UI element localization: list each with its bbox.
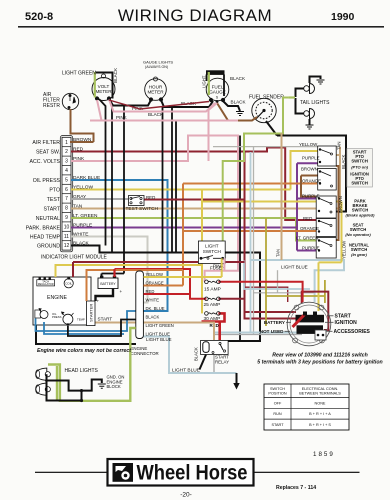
wire white pin11 to engine connector bbox=[71, 237, 148, 303]
svg-text:DK. BLUE: DK. BLUE bbox=[146, 306, 165, 311]
svg-text:6: 6 bbox=[65, 187, 68, 193]
svg-text:5 terminals with 3 key positio: 5 terminals with 3 key positions for bat… bbox=[257, 360, 382, 366]
svg-text:BATTERY: BATTERY bbox=[100, 282, 116, 286]
start relay bbox=[201, 340, 229, 354]
svg-text:(PTO on): (PTO on) bbox=[351, 165, 368, 170]
wire yellow light switch feed leg bbox=[221, 258, 223, 277]
svg-text:7: 7 bbox=[65, 196, 68, 202]
junction dots head lights bbox=[80, 389, 83, 392]
svg-text:-20-: -20- bbox=[180, 492, 192, 499]
wire color labels bbox=[73, 137, 100, 247]
hour meter bbox=[145, 77, 167, 102]
ignition label bbox=[325, 321, 334, 323]
wire engine conn lt green to head lights bbox=[48, 328, 136, 401]
svg-text:11: 11 bbox=[64, 234, 69, 240]
wire gray relay run bbox=[214, 334, 302, 336]
engine outline box bbox=[33, 277, 91, 325]
svg-text:TEMP: TEMP bbox=[77, 318, 85, 322]
svg-text:ORANGE: ORANGE bbox=[302, 178, 321, 183]
switch position table bbox=[264, 384, 349, 430]
tail lights lamp upper bbox=[304, 84, 315, 94]
svg-text:RED: RED bbox=[146, 195, 155, 200]
brown wire air filter to pin 1 bbox=[70, 109, 94, 142]
light green gauge light wire at volt meter bbox=[94, 72, 96, 98]
SECTION: bottomright bbox=[194, 302, 383, 458]
wire black key area vertical bbox=[239, 136, 241, 342]
wire orange engine top bbox=[87, 270, 184, 301]
svg-text:WIRING DIAGRAM: WIRING DIAGRAM bbox=[118, 6, 272, 25]
fuel sender bbox=[252, 98, 276, 122]
wire black vertical center a bbox=[102, 106, 125, 274]
svg-text:YELLOW: YELLOW bbox=[299, 142, 318, 147]
svg-text:METER: METER bbox=[147, 90, 164, 95]
fuse 15 amp bbox=[205, 280, 221, 284]
wire brown right vertical bbox=[336, 166, 338, 240]
head light lamp upper bbox=[36, 368, 51, 380]
wire maroon key branch bbox=[245, 287, 288, 302]
wire pink volt meter lower bbox=[90, 100, 238, 121]
svg-text:IGNITION: IGNITION bbox=[335, 320, 358, 326]
svg-text:HEAD TEMP: HEAD TEMP bbox=[30, 235, 61, 241]
start label bbox=[327, 315, 334, 317]
fuse 30 amp bbox=[205, 312, 221, 316]
wire maroon engine to key battery bbox=[73, 261, 245, 263]
svg-text:YELLOW: YELLOW bbox=[342, 240, 347, 259]
black wires tail lamps to green junction bbox=[296, 89, 304, 114]
wire red pin2 to seat switch bbox=[71, 148, 317, 221]
wire maroon engine top bbox=[72, 262, 74, 277]
svg-text:BLACK: BLACK bbox=[113, 67, 118, 83]
indicator light module connector body bbox=[62, 137, 71, 250]
svg-text:BROWN: BROWN bbox=[301, 166, 318, 171]
svg-text:B + R + I + A: B + R + I + A bbox=[309, 412, 331, 416]
arrowhead bbox=[233, 383, 239, 390]
svg-text:ENGINE: ENGINE bbox=[47, 295, 67, 301]
wire yellow mid horizontal bbox=[202, 201, 341, 203]
neutral switch box bbox=[316, 238, 336, 259]
wire battery positive red bbox=[113, 269, 115, 277]
wire black engine left wrap bbox=[36, 325, 136, 344]
svg-text:LIGHT GREEN: LIGHT GREEN bbox=[62, 71, 96, 77]
black wire upper lamp to ground bbox=[310, 77, 321, 84]
svg-text:LIGHT BLUE: LIGHT BLUE bbox=[281, 264, 308, 269]
ground at lower tail light bbox=[306, 125, 314, 129]
svg-text:1859: 1859 bbox=[313, 451, 335, 458]
wire dk blue oil press to engine connector bbox=[36, 311, 136, 334]
wire black vertical center d bbox=[175, 120, 177, 253]
svg-text:RESTR: RESTR bbox=[43, 103, 60, 109]
accessories label bbox=[327, 330, 333, 332]
svg-text:PINK: PINK bbox=[116, 115, 128, 120]
wire gray long net bbox=[213, 147, 340, 334]
svg-text:WHITE: WHITE bbox=[146, 297, 160, 302]
wire gray short vertical bbox=[277, 270, 279, 293]
wire tan start relay to starter bbox=[95, 323, 214, 345]
svg-text:STARTER: STARTER bbox=[89, 304, 94, 322]
svg-text:OFF: OFF bbox=[274, 401, 282, 405]
wire light blue long bbox=[251, 260, 345, 302]
wire black fuel sender to switches bbox=[277, 136, 346, 212]
svg-text:Replaces 7 - 114: Replaces 7 - 114 bbox=[276, 485, 316, 491]
start pto switch box bbox=[318, 146, 337, 166]
svg-text:LIGHT BLUE: LIGHT BLUE bbox=[172, 368, 200, 374]
svg-text:LIGHT BLUE: LIGHT BLUE bbox=[146, 331, 171, 336]
svg-text:FUSE: FUSE bbox=[210, 266, 222, 271]
svg-text:5: 5 bbox=[65, 177, 68, 183]
wire black head light harness bbox=[47, 374, 102, 400]
wire purple vertical with switch stubs bbox=[297, 163, 320, 250]
svg-text:NOT USED: NOT USED bbox=[260, 329, 284, 334]
pin function labels bbox=[26, 140, 61, 250]
svg-text:10: 10 bbox=[64, 224, 70, 230]
svg-text:COIL: COIL bbox=[65, 282, 72, 286]
wire olive to key bbox=[266, 218, 325, 326]
footer rule left bbox=[35, 472, 108, 473]
wire black pin12 ground run bbox=[71, 246, 260, 342]
svg-text:PTO: PTO bbox=[49, 188, 60, 194]
key switch inner circle bbox=[290, 305, 328, 343]
wheel horse logo box bbox=[108, 459, 254, 486]
svg-text:LT. GREEN: LT. GREEN bbox=[296, 235, 318, 240]
seat switch box bbox=[316, 219, 336, 237]
wire pink fuel gauge drop bbox=[209, 103, 218, 161]
black wire fuel gauge to ground bbox=[223, 101, 240, 111]
svg-text:BLACK: BLACK bbox=[341, 155, 346, 169]
svg-text:BATTERY: BATTERY bbox=[264, 320, 285, 325]
SECTION: maze bbox=[71, 98, 346, 374]
wire pink pin3 bbox=[71, 136, 238, 282]
svg-text:3: 3 bbox=[65, 159, 68, 165]
tach regulator bbox=[37, 278, 55, 287]
wire gray key feed bbox=[254, 292, 315, 294]
starter bbox=[87, 299, 100, 326]
engine connector wire labels bbox=[146, 272, 174, 337]
svg-text:POSITION: POSITION bbox=[268, 391, 286, 395]
ground at fuel gauge bbox=[236, 112, 244, 116]
svg-text:GAUGE LIGHTS: GAUGE LIGHTS bbox=[143, 60, 173, 65]
header rule line bbox=[18, 26, 384, 28]
svg-text:METER: METER bbox=[95, 89, 112, 94]
test switch bbox=[129, 196, 145, 206]
wire purple pin10 bbox=[71, 227, 297, 229]
svg-text:BLACK: BLACK bbox=[231, 100, 247, 105]
svg-text:2: 2 bbox=[65, 149, 68, 155]
svg-text:30 AMP: 30 AMP bbox=[204, 316, 221, 322]
indicator module outer outline bbox=[60, 136, 72, 252]
black wire volt meter to hour meter bbox=[109, 99, 151, 106]
SECTION: meters bbox=[43, 60, 330, 143]
key switch red lever bbox=[293, 314, 306, 327]
wire black vertical volt meter right bbox=[110, 99, 113, 253]
svg-text:1990: 1990 bbox=[331, 11, 355, 23]
coil bbox=[64, 277, 73, 288]
wire red battery feed bbox=[115, 269, 207, 299]
footer rule right bbox=[254, 472, 360, 473]
svg-text:(Brake applied): (Brake applied) bbox=[346, 213, 376, 218]
wire dark blue pin5 to engine connector bbox=[71, 180, 168, 311]
wire black vertical volt meter left bbox=[99, 99, 106, 246]
wire yellow vertical to pto bbox=[291, 151, 321, 190]
svg-text:OIL PRESS: OIL PRESS bbox=[33, 178, 61, 184]
svg-text:ACCESSORIES: ACCESSORIES bbox=[334, 329, 371, 335]
svg-text:(ALWAYS ON): (ALWAYS ON) bbox=[145, 65, 168, 69]
wire yellow engine top bbox=[56, 265, 203, 277]
wire light green pin9 bbox=[71, 218, 317, 241]
wire engine conn yellow stub bbox=[144, 276, 222, 278]
wire black relay down bbox=[200, 355, 207, 370]
svg-text:SWITCH: SWITCH bbox=[270, 387, 285, 391]
svg-text:(In gear): (In gear) bbox=[351, 252, 367, 257]
wire maroon volt to hour meter diagonal bbox=[109, 100, 209, 109]
wire maroon key battery upper bbox=[245, 311, 297, 313]
black wire lower lamp to ground bbox=[309, 119, 311, 125]
svg-text:AIR FILTER: AIR FILTER bbox=[32, 140, 60, 146]
park brake caption bbox=[346, 199, 376, 218]
svg-text:NEUTRAL: NEUTRAL bbox=[36, 216, 60, 222]
svg-text:TEST SWITCH: TEST SWITCH bbox=[126, 206, 159, 212]
light green wire to tail lights bbox=[288, 96, 295, 98]
oil press switch bbox=[35, 309, 62, 320]
wire maroon key ring bbox=[302, 292, 329, 330]
svg-text:TAN: TAN bbox=[276, 249, 281, 257]
wire black temp sender down bbox=[68, 320, 136, 337]
wire green light switch to tail lights bbox=[223, 98, 289, 259]
light switch bbox=[198, 241, 225, 264]
wire red thick fuse3 to relay bbox=[202, 313, 225, 344]
svg-text:PURPLE: PURPLE bbox=[302, 193, 320, 198]
svg-text:PURPLE: PURPLE bbox=[302, 156, 320, 161]
volt meter black frame wire bbox=[95, 73, 113, 99]
head light lamp lower bbox=[36, 383, 51, 395]
ground on engine block bbox=[98, 384, 106, 388]
svg-text:BETWEEN TERMINALS: BETWEEN TERMINALS bbox=[299, 391, 341, 395]
wire red fuse1 to key bbox=[218, 282, 302, 302]
wire pink volt meter upper bbox=[109, 100, 215, 112]
svg-text:TEST: TEST bbox=[47, 197, 61, 203]
svg-text:+: + bbox=[97, 299, 100, 304]
SECTION: header bbox=[18, 6, 384, 28]
svg-text:8: 8 bbox=[65, 206, 68, 212]
wire engine conn red stub bbox=[144, 293, 191, 295]
svg-text:25 AMP: 25 AMP bbox=[204, 302, 221, 308]
engine connector block bbox=[136, 271, 144, 339]
wire black vertical center c bbox=[171, 107, 173, 253]
svg-text:START: START bbox=[98, 317, 113, 322]
wire battery to starter cable bbox=[96, 289, 114, 302]
wire light blue lower run bbox=[144, 337, 237, 374]
svg-text:BLACK: BLACK bbox=[230, 76, 246, 81]
svg-text:HEAD LIGHTS: HEAD LIGHTS bbox=[65, 368, 99, 374]
svg-text:520-8: 520-8 bbox=[25, 11, 53, 23]
tail lights lamp lower bbox=[304, 109, 315, 119]
wire black junction drop bbox=[81, 391, 83, 401]
svg-text:Rear view of 103990 and 111216: Rear view of 103990 and 111216 switch bbox=[272, 353, 368, 359]
svg-text:LIGHT BLUE: LIGHT BLUE bbox=[146, 337, 172, 342]
key switch terminal box bbox=[315, 330, 326, 340]
svg-text:TAN: TAN bbox=[337, 142, 342, 150]
svg-text:ORANGE: ORANGE bbox=[300, 226, 319, 231]
key switch screws bbox=[294, 305, 299, 310]
svg-text:START: START bbox=[271, 423, 284, 427]
svg-text:ELECTRICAL CONN.: ELECTRICAL CONN. bbox=[302, 387, 339, 391]
wire engine conn orange stub bbox=[144, 285, 184, 287]
svg-text:INDICATOR LIGHT MODULE: INDICATOR LIGHT MODULE bbox=[41, 254, 108, 260]
fuel gauge bbox=[206, 78, 229, 103]
svg-text:B + R + I + S: B + R + I + S bbox=[309, 423, 331, 427]
wire tan right vertical bbox=[281, 133, 283, 260]
svg-text:PRESS: PRESS bbox=[52, 315, 62, 319]
key terminal nubs bbox=[303, 312, 307, 316]
svg-text:4: 4 bbox=[65, 168, 68, 174]
svg-text:LIGHT: LIGHT bbox=[205, 244, 219, 249]
wire tan pin8 bbox=[71, 147, 340, 209]
wire maroon fuse2 right bbox=[218, 298, 244, 300]
svg-text:BROWN: BROWN bbox=[338, 196, 343, 213]
air filter restriction switch bbox=[62, 93, 78, 109]
wire light blue to key bbox=[244, 261, 310, 290]
svg-text:+: + bbox=[120, 289, 123, 294]
wire brown pto stub bbox=[301, 176, 320, 197]
key switch body black bars bbox=[296, 315, 325, 323]
svg-text:RED: RED bbox=[303, 216, 312, 221]
black wire fuel sender down bbox=[266, 121, 277, 136]
svg-text:ACC. VOLTS: ACC. VOLTS bbox=[30, 159, 61, 165]
wire light blue relay run bbox=[214, 332, 315, 334]
svg-text:LIGHT: LIGHT bbox=[202, 75, 207, 88]
svg-text:RELAY: RELAY bbox=[215, 359, 229, 364]
wire light blue verticals bbox=[250, 152, 252, 333]
svg-text:(No operator): (No operator) bbox=[345, 232, 371, 237]
SECTION: leftconn bbox=[26, 136, 108, 261]
svg-text:START: START bbox=[43, 207, 60, 213]
ignition pto switch box bbox=[318, 169, 337, 191]
svg-text:Wheel Horse: Wheel Horse bbox=[137, 460, 248, 484]
svg-text:BLACK: BLACK bbox=[146, 314, 160, 319]
svg-text:CONNECTOR: CONNECTOR bbox=[131, 351, 159, 356]
svg-text:9: 9 bbox=[65, 215, 68, 221]
pin numbers 1-12 bbox=[64, 140, 70, 249]
black wire hour meter to fuel gauge bbox=[161, 100, 213, 107]
park brake switch box bbox=[316, 196, 336, 218]
svg-text:Engine wire colors may not be: Engine wire colors may not be correct bbox=[37, 348, 131, 354]
svg-text:GROUND: GROUND bbox=[37, 244, 60, 250]
wire black vertical center b bbox=[162, 107, 164, 253]
svg-text:PURPLE: PURPLE bbox=[302, 245, 320, 250]
ground at upper tail light bbox=[317, 80, 325, 84]
volt meter bbox=[92, 74, 115, 101]
svg-text:REGULATOR: REGULATOR bbox=[38, 282, 54, 286]
svg-text:TAIL LIGHTS: TAIL LIGHTS bbox=[300, 100, 330, 106]
SECTION: footer bbox=[35, 459, 360, 499]
wire gray pin7 to test switch bbox=[71, 198, 129, 200]
wire yellow key vertical bbox=[319, 202, 342, 312]
battery box bbox=[98, 276, 123, 294]
svg-text:SWITCH: SWITCH bbox=[351, 159, 368, 164]
svg-text:RUN: RUN bbox=[273, 412, 281, 416]
svg-text:12: 12 bbox=[64, 243, 70, 249]
svg-text:FUEL SENDER: FUEL SENDER bbox=[249, 94, 284, 100]
wire black to starter arrow bbox=[236, 373, 238, 383]
svg-text:BLOCK: BLOCK bbox=[107, 384, 121, 389]
svg-text:SWITCH: SWITCH bbox=[203, 249, 221, 254]
wire yellow light switch vertical bbox=[201, 190, 203, 314]
wire yellow pin6 bbox=[71, 189, 291, 191]
wire maroon test switch red out bbox=[144, 152, 297, 319]
seat caption bbox=[345, 223, 371, 238]
svg-text:SEAT SW.: SEAT SW. bbox=[36, 150, 60, 156]
wire battery negative black bbox=[101, 274, 103, 278]
pto caption box bbox=[347, 149, 373, 188]
svg-text:SWITCH: SWITCH bbox=[351, 181, 368, 186]
svg-text:NONE: NONE bbox=[315, 401, 326, 405]
SECTION: switchcol bbox=[126, 142, 376, 322]
neutral caption bbox=[349, 243, 369, 258]
svg-text:LIGHT GREEN: LIGHT GREEN bbox=[146, 323, 174, 328]
key switch outer circle bbox=[287, 302, 331, 346]
svg-text:15 AMP: 15 AMP bbox=[204, 287, 221, 293]
svg-text:PARK. BRAKE: PARK. BRAKE bbox=[26, 226, 61, 232]
wheel horse icon square bbox=[113, 463, 134, 482]
fuel gauge top black housing bbox=[206, 70, 225, 75]
svg-text:START: START bbox=[335, 314, 351, 320]
light green gauge light wire at fuel gauge bbox=[208, 72, 210, 95]
wire orange vertical bbox=[183, 184, 317, 286]
wire gray relay down bbox=[213, 355, 215, 374]
temp sender bbox=[62, 312, 85, 326]
fuel gauge frame sides bbox=[207, 75, 225, 97]
fuse 25 amp bbox=[205, 297, 221, 301]
SECTION: engine bbox=[33, 262, 222, 402]
brown wire fuel gauge to fuel sender bbox=[217, 103, 257, 121]
svg-text:BLACK: BLACK bbox=[194, 347, 199, 361]
wire pink light switch output leg bbox=[223, 258, 225, 271]
svg-text:1: 1 bbox=[65, 140, 68, 146]
